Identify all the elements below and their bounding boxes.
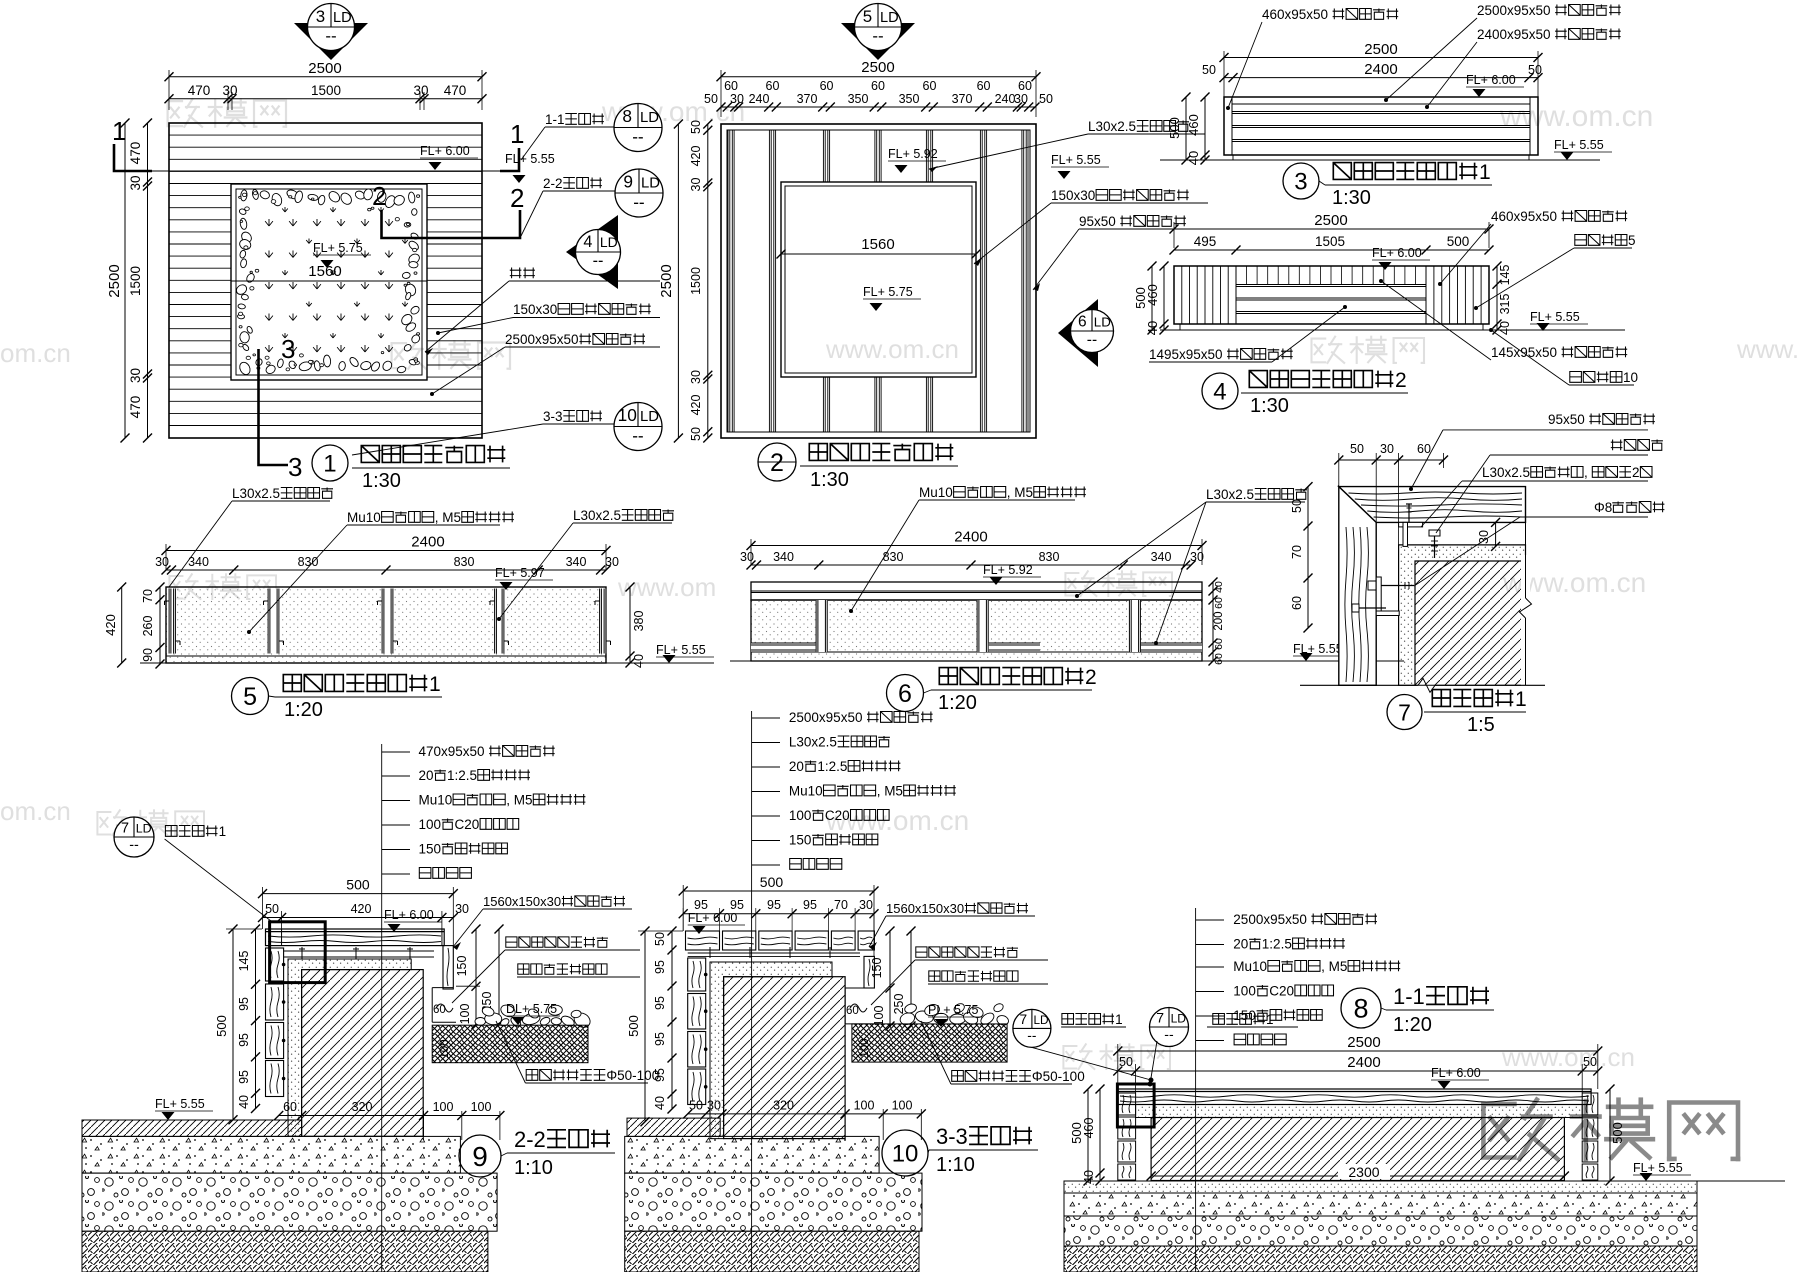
svg-text:FL+ 6.00: FL+ 6.00 xyxy=(1431,1066,1481,1080)
view10 label 白色卵石粒径Φ50-100 xyxy=(952,1071,964,1082)
view8 right dim 500 xyxy=(1609,1089,1611,1181)
svg-text:, M5: , M5 xyxy=(1007,485,1033,500)
svg-text:www.om.cn: www.om.cn xyxy=(1501,1042,1635,1072)
svg-text:om.cn: om.cn xyxy=(0,338,71,368)
svg-text:3: 3 xyxy=(281,334,295,364)
view10 label 预留暗藏灯带位置 xyxy=(916,947,927,957)
svg-text:460x95x50: 460x95x50 xyxy=(1491,209,1557,224)
svg-text:60: 60 xyxy=(846,1005,859,1017)
svg-text:150x30: 150x30 xyxy=(1051,188,1095,203)
svg-text:5: 5 xyxy=(243,683,257,711)
view4 label 预留缝隙10 xyxy=(1570,372,1582,383)
svg-text:40: 40 xyxy=(1186,151,1201,165)
svg-text:LD: LD xyxy=(640,409,659,425)
view8 left dims 500/460/40 xyxy=(1087,1089,1089,1181)
svg-text:60: 60 xyxy=(977,79,991,93)
view4 title circle 4 xyxy=(1202,373,1238,409)
view7 angle steel top with screw xyxy=(1399,522,1423,527)
view10 material label 20厚1:2.5水泥 xyxy=(752,766,780,768)
svg-text:8: 8 xyxy=(1354,994,1369,1024)
svg-text:Mu10: Mu10 xyxy=(919,485,953,500)
svg-text:8: 8 xyxy=(622,106,632,126)
svg-text:FL+ 5.55: FL+ 5.55 xyxy=(656,643,706,657)
view8 title circle 8 xyxy=(1341,988,1381,1028)
callout circle 10 LD xyxy=(614,403,662,451)
view3 bench outline xyxy=(1224,97,1538,155)
svg-text:2400: 2400 xyxy=(954,529,987,546)
view8 mortar band xyxy=(1136,1105,1583,1118)
view3 title circle 3 xyxy=(1283,163,1319,199)
view7 left wood plank vertical xyxy=(1339,487,1376,686)
view1 title 树池坐椅平面图 1:30 xyxy=(361,446,379,463)
svg-text:LD: LD xyxy=(333,10,352,26)
watermark 欧模网 view9 left xyxy=(97,810,204,835)
view1 label 卵石 xyxy=(510,268,522,279)
svg-text:4: 4 xyxy=(583,233,592,251)
svg-text:LD: LD xyxy=(136,822,152,836)
svg-text:95x50: 95x50 xyxy=(1548,412,1585,427)
svg-text:50: 50 xyxy=(1528,63,1542,77)
svg-text:470: 470 xyxy=(188,83,211,98)
view5 left dims 70/260/90 and 420 xyxy=(121,587,123,663)
svg-text:240: 240 xyxy=(749,92,770,106)
svg-text:1: 1 xyxy=(1266,1012,1274,1027)
view2 inner border xyxy=(727,130,1030,432)
view2 keels (vertical joists) xyxy=(727,130,729,432)
view8 material label stem xyxy=(1195,908,1197,1272)
svg-text:30: 30 xyxy=(128,368,143,383)
view7 title 节点详图1 xyxy=(1432,690,1450,707)
callout circle 8 LD xyxy=(614,104,662,152)
svg-text:1:30: 1:30 xyxy=(1250,395,1289,417)
svg-text:Mu10: Mu10 xyxy=(789,784,823,799)
svg-text:830: 830 xyxy=(883,550,904,564)
view7 concrete block stipple border xyxy=(1399,545,1526,685)
svg-text:40: 40 xyxy=(1498,321,1512,335)
watermark 欧模网 view6 xyxy=(1065,571,1172,596)
svg-text:FL+ 5.97: FL+ 5.97 xyxy=(495,566,545,580)
view9 pebbles at planter side xyxy=(475,1017,486,1025)
view3 top dim 2500 xyxy=(1224,57,1538,59)
view6 bottom strip xyxy=(751,651,1202,653)
svg-text:50: 50 xyxy=(1350,442,1364,456)
svg-text:FL+ 5.55: FL+ 5.55 xyxy=(505,152,555,166)
view8 material label 150厚碎石基层 xyxy=(1196,1015,1224,1017)
svg-text:95: 95 xyxy=(237,1033,251,1047)
view10 material label 100厚C20混凝土 xyxy=(752,815,780,817)
svg-text:2400x95x50: 2400x95x50 xyxy=(1477,27,1551,42)
svg-text:60: 60 xyxy=(1290,596,1304,610)
svg-text:145: 145 xyxy=(1498,264,1512,285)
view7 left dims 50/70/60 xyxy=(1307,487,1309,628)
view4 middle top slat strip xyxy=(1236,284,1426,286)
svg-text:340: 340 xyxy=(773,550,794,564)
view9 label 预留暗藏灯带位置 xyxy=(506,937,517,947)
svg-text:LD: LD xyxy=(1094,314,1111,329)
svg-text:FL+ 5.55: FL+ 5.55 xyxy=(1554,138,1604,152)
svg-text:www.om: www.om xyxy=(617,572,716,602)
svg-text:315: 315 xyxy=(1498,293,1512,314)
svg-text:60: 60 xyxy=(1213,653,1225,665)
svg-text:6: 6 xyxy=(1078,313,1087,330)
svg-text:Mu10: Mu10 xyxy=(1233,959,1267,974)
view9 material label 100厚C20混凝土 xyxy=(382,824,410,826)
svg-text:320: 320 xyxy=(773,1099,794,1113)
svg-text:30: 30 xyxy=(455,902,469,916)
view1 deck plank lines xyxy=(169,134,482,136)
view8 seat plank band xyxy=(1118,1089,1591,1105)
callout circle 9 LD xyxy=(615,169,663,217)
svg-text:2500x95x50: 2500x95x50 xyxy=(1233,912,1307,927)
svg-text:2500x95x50: 2500x95x50 xyxy=(1477,3,1551,18)
view8 material label 素土夯实 xyxy=(1196,1040,1224,1042)
svg-text:60: 60 xyxy=(766,79,780,93)
view7 lower angle steel with expansion bolt xyxy=(1376,577,1381,615)
svg-text:6: 6 xyxy=(898,680,912,708)
svg-text:60: 60 xyxy=(923,79,937,93)
view8 concrete layer xyxy=(1064,1193,1697,1216)
svg-text:90: 90 xyxy=(141,648,155,662)
view1 left dim 2500 xyxy=(124,123,126,438)
svg-text:FL+ 6.00: FL+ 6.00 xyxy=(688,911,738,925)
svg-text:370: 370 xyxy=(952,92,973,106)
svg-text:FL+ 5.55: FL+ 5.55 xyxy=(1051,153,1101,167)
orientation marker circle 6 right xyxy=(1058,299,1098,367)
svg-text:50: 50 xyxy=(1119,1055,1133,1069)
svg-text:50: 50 xyxy=(1039,92,1053,106)
svg-text:460: 460 xyxy=(1082,1117,1096,1138)
svg-text:30: 30 xyxy=(1380,442,1394,456)
svg-text:1:2.5: 1:2.5 xyxy=(1262,937,1292,952)
view6 keel posts with angle arms xyxy=(816,600,828,652)
svg-text:Mu10: Mu10 xyxy=(347,510,381,525)
svg-text:830: 830 xyxy=(1039,550,1060,564)
watermark 欧模网 big bottom-right xyxy=(1483,1100,1738,1159)
svg-text:2400: 2400 xyxy=(1364,61,1397,78)
svg-text:--: -- xyxy=(1027,1028,1036,1043)
svg-text:30: 30 xyxy=(128,175,143,190)
svg-text:1:30: 1:30 xyxy=(810,469,849,491)
svg-text:2-2: 2-2 xyxy=(543,176,563,191)
svg-text:1:30: 1:30 xyxy=(1332,187,1371,209)
view2 outer square xyxy=(721,124,1036,438)
view7 right edge break line xyxy=(1525,487,1527,598)
svg-text:7: 7 xyxy=(1020,1012,1028,1027)
view8 detail highlight rect xyxy=(1117,1084,1154,1127)
svg-text:240: 240 xyxy=(995,92,1016,106)
svg-text:30: 30 xyxy=(730,92,744,106)
view4 top dim 2500 xyxy=(1174,228,1489,230)
view6 dim segments 30/340/830/830/340/30 xyxy=(751,564,1191,566)
view9 right dims 150/100/250 xyxy=(475,929,477,1024)
svg-text:L30x2.5: L30x2.5 xyxy=(573,508,621,523)
view8 material label 100厚C20混凝土 xyxy=(1196,991,1224,993)
svg-text:--: -- xyxy=(593,252,604,270)
svg-text:40: 40 xyxy=(1145,321,1160,335)
view5 body with brick stipple fill xyxy=(166,587,606,663)
view6 ground line xyxy=(730,660,1404,662)
svg-text:2400: 2400 xyxy=(1347,1054,1380,1071)
svg-text:1: 1 xyxy=(429,673,441,696)
svg-text:95: 95 xyxy=(694,898,708,912)
svg-text:40: 40 xyxy=(653,1096,667,1110)
view9 brick stipple wrap xyxy=(288,959,411,1136)
svg-text:1-1: 1-1 xyxy=(1393,984,1425,1009)
view8 concrete hatch core xyxy=(1151,1118,1564,1181)
view9 soil layer 100 thick xyxy=(432,1025,588,1063)
svg-text:2: 2 xyxy=(770,449,784,477)
svg-text:60: 60 xyxy=(1213,597,1225,609)
svg-text:--: -- xyxy=(129,837,139,853)
svg-text:LD: LD xyxy=(600,234,618,250)
view8 ground line xyxy=(1064,1180,1785,1182)
svg-text:4: 4 xyxy=(1213,379,1226,406)
svg-text:FL+ 6.00: FL+ 6.00 xyxy=(384,908,434,922)
svg-text:320: 320 xyxy=(352,1100,373,1114)
view7 self-tapping screw into wood xyxy=(1408,504,1410,522)
watermark 欧模网 view4 left xyxy=(1312,337,1425,363)
view1 left dim segments 470/30/1500/30/470 xyxy=(147,123,149,438)
svg-text:60: 60 xyxy=(433,1004,446,1016)
svg-text:95: 95 xyxy=(653,1032,667,1046)
svg-text:495: 495 xyxy=(1194,234,1217,249)
svg-text:100: 100 xyxy=(854,1099,875,1113)
view9 left dims 145/95/95/95/40 xyxy=(255,929,257,1109)
view10 seat planks row xyxy=(686,931,720,950)
svg-text:2500: 2500 xyxy=(1364,41,1397,58)
svg-text:--: -- xyxy=(1164,1026,1174,1042)
svg-text:www.om.cn: www.om.cn xyxy=(825,334,959,364)
view3 bench end caps xyxy=(1231,97,1233,155)
svg-text:40: 40 xyxy=(237,1095,251,1109)
svg-text:2: 2 xyxy=(1085,666,1097,689)
view5 ground line xyxy=(140,662,714,664)
view7 inner dim 30 xyxy=(1495,522,1497,546)
view8 material label 20厚1:2.5水泥 xyxy=(1196,944,1224,946)
view9 label 由专业厂家安装 xyxy=(518,964,529,974)
view2 top dim segments xyxy=(721,106,1035,108)
view7 top dim 50/30/60 xyxy=(1339,459,1444,461)
view4 left slat zone verticals xyxy=(1181,266,1183,324)
view8 internal dim 2300 xyxy=(1151,1175,1564,1177)
svg-text:5: 5 xyxy=(1628,233,1636,248)
svg-text:95: 95 xyxy=(237,997,251,1011)
svg-text:100: 100 xyxy=(892,1099,913,1113)
svg-text:60: 60 xyxy=(283,1100,297,1114)
svg-text:50: 50 xyxy=(689,120,703,134)
svg-text:3-3: 3-3 xyxy=(936,1124,968,1149)
view10 material label L30x2.5镀锌角 xyxy=(752,742,780,744)
svg-text:30: 30 xyxy=(155,555,169,569)
svg-text:www.om.cn: www.om.cn xyxy=(1499,100,1653,133)
view9 fascia board 1560x150x30 xyxy=(443,946,453,989)
svg-text:30: 30 xyxy=(689,370,703,384)
view9 compacted soil layer xyxy=(82,1231,488,1272)
svg-text:3: 3 xyxy=(288,452,302,482)
view10 left outer dim 500 xyxy=(644,931,646,1122)
view10 concrete hatch core xyxy=(724,977,846,1139)
svg-text:95: 95 xyxy=(653,1068,667,1082)
view4 ground line xyxy=(1160,329,1625,331)
svg-text:1500: 1500 xyxy=(128,266,143,296)
svg-text:2500: 2500 xyxy=(861,59,894,76)
svg-text:145x95x50: 145x95x50 xyxy=(1491,345,1557,360)
svg-text:470x95x50: 470x95x50 xyxy=(419,744,485,759)
svg-text:30: 30 xyxy=(1190,550,1204,564)
svg-text:100: 100 xyxy=(439,1039,451,1058)
svg-text:FL+ 5.55: FL+ 5.55 xyxy=(1633,1161,1683,1175)
svg-text:2500: 2500 xyxy=(106,264,123,297)
svg-text:,: , xyxy=(1584,465,1588,480)
svg-text:500: 500 xyxy=(1610,1122,1625,1144)
svg-text:LD: LD xyxy=(641,176,660,192)
svg-text:95: 95 xyxy=(653,996,667,1010)
svg-text:, M5: , M5 xyxy=(877,784,903,799)
svg-text:2-2: 2-2 xyxy=(514,1127,546,1152)
svg-text:50: 50 xyxy=(689,1099,703,1113)
view1 top dim 2500 xyxy=(169,76,482,78)
view9 material label stem xyxy=(381,744,383,1272)
svg-text:--: -- xyxy=(872,27,883,46)
view10 left dims 50/95x4/40 xyxy=(671,931,673,1109)
view9 material label 470x95x50 xyxy=(382,751,410,753)
svg-text:2500: 2500 xyxy=(658,264,675,297)
svg-text:1560: 1560 xyxy=(861,236,894,253)
view6 title 龙骨分布立面图2 xyxy=(939,668,957,685)
svg-text:1:2.5: 1:2.5 xyxy=(817,759,847,774)
view3 left dims 500/460/40 xyxy=(1185,97,1187,160)
view10 mortar bed under seat xyxy=(688,952,860,954)
svg-text:2500x95x50: 2500x95x50 xyxy=(505,332,579,347)
svg-text:1:5: 1:5 xyxy=(1467,714,1495,736)
view7 ground line with break xyxy=(1300,684,1418,686)
svg-text:50: 50 xyxy=(689,427,703,441)
svg-text:100: 100 xyxy=(471,1100,492,1114)
svg-text:95x50: 95x50 xyxy=(1079,214,1116,229)
svg-text:FL+ 6.00: FL+ 6.00 xyxy=(1466,73,1516,87)
svg-text:Φ8: Φ8 xyxy=(1594,500,1612,515)
view9 material label 20厚1:2.5水泥 xyxy=(382,775,410,777)
svg-text:380: 380 xyxy=(632,610,646,631)
view4 right dims 145/315/40 xyxy=(1496,266,1498,330)
svg-text:FL+ 5.92: FL+ 5.92 xyxy=(983,563,1033,577)
svg-text:250: 250 xyxy=(892,993,906,1014)
view9 concrete layer C20 xyxy=(82,1136,460,1173)
svg-text:9: 9 xyxy=(623,172,633,192)
svg-text:95: 95 xyxy=(653,960,667,974)
view10 compacted soil layer xyxy=(625,1231,919,1272)
svg-text:500: 500 xyxy=(346,877,370,893)
view10 node callout circle 7 LD xyxy=(1013,1009,1051,1047)
svg-text:30: 30 xyxy=(223,83,238,98)
view9 lamp cove xyxy=(432,987,453,989)
svg-text:60: 60 xyxy=(724,79,738,93)
view4 middle horizontal planks xyxy=(1236,286,1426,288)
svg-text:7: 7 xyxy=(1156,1010,1164,1026)
view10 pebbles xyxy=(899,1011,917,1026)
svg-text:, M5: , M5 xyxy=(435,510,461,525)
svg-text:C20: C20 xyxy=(825,808,850,823)
view4 left dims 500/460/40 xyxy=(1151,266,1153,330)
svg-text:420: 420 xyxy=(689,394,703,415)
svg-text:470: 470 xyxy=(444,83,467,98)
svg-text:1500: 1500 xyxy=(689,267,703,295)
view5 dim segments 30/340/830/830/340/30 xyxy=(166,569,606,571)
view1 plan outer square xyxy=(169,123,482,438)
svg-text:50: 50 xyxy=(1290,499,1304,513)
svg-text:100: 100 xyxy=(789,808,812,823)
svg-text:2400: 2400 xyxy=(411,534,444,551)
svg-text:100: 100 xyxy=(1233,984,1256,999)
svg-text:FL+ 6.00: FL+ 6.00 xyxy=(1372,246,1422,260)
orientation marker circle 5 top xyxy=(841,23,915,60)
view5 bottom strip xyxy=(166,655,606,657)
svg-text:1: 1 xyxy=(1115,1012,1123,1027)
view9 label 白色卵石粒径Φ50-100 xyxy=(526,1070,538,1081)
view10 left paving band xyxy=(627,1118,720,1136)
view9 left outer dim 500 xyxy=(232,929,234,1120)
view9 detail highlight rect xyxy=(270,922,326,983)
view2 left dim segments 50/420/30/1500/30/420/50 xyxy=(707,124,709,438)
svg-text:95: 95 xyxy=(767,898,781,912)
svg-text:1-1: 1-1 xyxy=(545,112,565,127)
svg-text:C20: C20 xyxy=(455,817,480,832)
view8 material label 2500x95x50 xyxy=(1196,919,1224,921)
view10 brick stipple wrap xyxy=(710,962,832,1139)
svg-text:1495x95x50: 1495x95x50 xyxy=(1149,347,1223,362)
watermark 欧模网 view1 lower xyxy=(392,341,510,369)
svg-text:40: 40 xyxy=(1213,581,1225,593)
svg-text:L30x2.5: L30x2.5 xyxy=(1088,119,1136,134)
view9 bottom dims 60/320/100/100 xyxy=(279,1115,500,1117)
svg-text:340: 340 xyxy=(1151,550,1172,564)
view9 left wood plank column xyxy=(266,948,284,981)
svg-text:50: 50 xyxy=(704,92,718,106)
view7 screw into concrete xyxy=(1429,530,1440,536)
svg-text:20: 20 xyxy=(419,768,434,783)
view9 top dim 500 xyxy=(263,893,454,895)
view5 right dims 380/40 xyxy=(629,587,631,663)
svg-text:10: 10 xyxy=(1623,370,1638,385)
svg-text:350: 350 xyxy=(899,92,920,106)
svg-text:95: 95 xyxy=(730,898,744,912)
svg-text:500: 500 xyxy=(214,1015,229,1037)
svg-text:20: 20 xyxy=(1233,937,1248,952)
svg-text:100: 100 xyxy=(458,1003,472,1024)
view10 material label 150厚碎石基层 xyxy=(752,840,780,842)
view10 concrete layer C20 xyxy=(625,1136,879,1173)
svg-text:100: 100 xyxy=(433,1100,454,1114)
view7 label 自攻螺丝 xyxy=(1611,440,1623,451)
svg-text:30: 30 xyxy=(605,555,619,569)
svg-text:--: -- xyxy=(325,27,336,46)
svg-text:1: 1 xyxy=(1515,688,1527,711)
svg-text:20: 20 xyxy=(789,759,804,774)
svg-text:DL+ 5.75: DL+ 5.75 xyxy=(506,1002,557,1016)
svg-text:LD: LD xyxy=(1034,1014,1049,1027)
svg-text:60: 60 xyxy=(1213,638,1225,650)
svg-text:420: 420 xyxy=(103,614,118,636)
svg-text:150: 150 xyxy=(1233,1008,1256,1023)
svg-text:500: 500 xyxy=(1447,234,1470,249)
view2 planter square 1560 xyxy=(781,182,976,377)
svg-text:60: 60 xyxy=(871,79,885,93)
svg-text:460: 460 xyxy=(1186,114,1201,136)
svg-text:150x30: 150x30 xyxy=(513,302,557,317)
svg-text:30: 30 xyxy=(1014,92,1028,106)
view7 bolt through wood lower xyxy=(1352,604,1359,612)
svg-text:PL+ 5.75: PL+ 5.75 xyxy=(928,1003,978,1017)
